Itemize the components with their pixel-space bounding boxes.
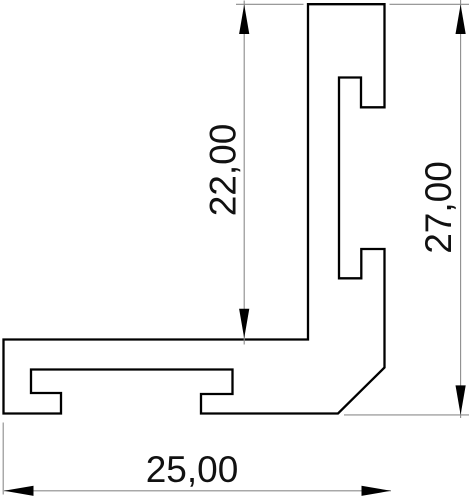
arrow left 25,00 (4, 486, 34, 496)
dimension line 25,00 (4, 490, 391, 492)
arrow down 22,00 (239, 309, 249, 339)
extension line top-left for 22,00 (236, 3, 304, 5)
dimension line 22,00 (243, 1, 245, 345)
dimension line 27,00 (460, 0, 462, 418)
svg-text:27,00: 27,00 (418, 161, 459, 254)
profile outline (4, 4, 385, 413)
arrow up 27,00 (456, 5, 466, 35)
extension line top-right for 27,00 (390, 3, 469, 5)
svg-text:25,00: 25,00 (146, 449, 239, 490)
extension line bottom-left for 25,00 (2, 423, 4, 495)
arrow up 22,00 (239, 5, 249, 35)
extension line bottom-right for 27,00 (344, 414, 469, 416)
svg-text:22,00: 22,00 (203, 124, 244, 217)
arrow down 27,00 (456, 385, 466, 415)
arrow right 25,00 (362, 486, 392, 496)
